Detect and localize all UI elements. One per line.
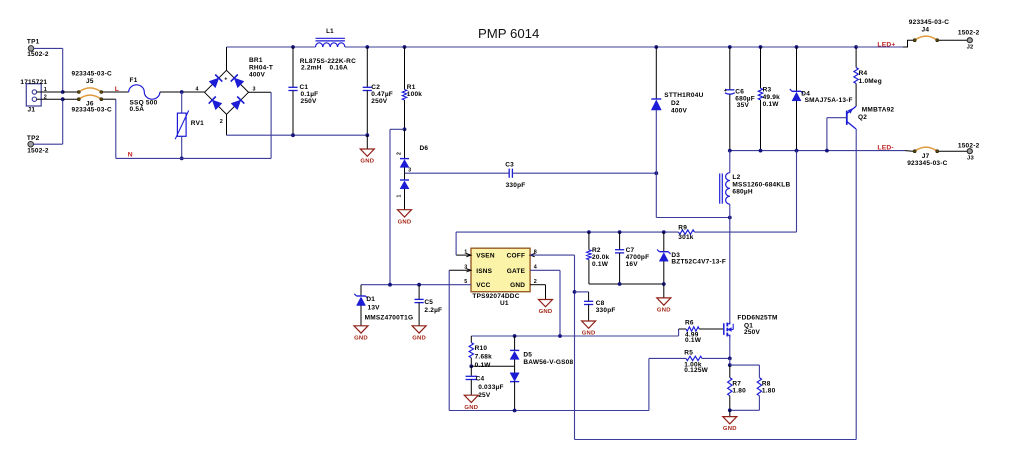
svg-text:GND: GND [412,335,426,341]
svg-text:1502-2: 1502-2 [27,147,49,154]
svg-text:C3: C3 [505,162,514,169]
svg-text:0.47µF: 0.47µF [371,91,393,98]
svg-text:MMSZ4700T1G: MMSZ4700T1G [365,315,414,322]
svg-text:L1: L1 [326,28,334,35]
svg-text:1502-2: 1502-2 [958,29,980,36]
svg-text:1502-2: 1502-2 [958,143,980,150]
svg-text:GND: GND [354,335,368,341]
svg-text:3: 3 [464,265,467,271]
svg-text:L: L [115,86,119,93]
svg-text:0.5A: 0.5A [130,106,145,113]
svg-text:400V: 400V [671,107,688,114]
svg-text:R3: R3 [763,87,772,94]
svg-text:301k: 301k [678,234,694,241]
svg-text:250V: 250V [744,329,761,336]
svg-text:RV1: RV1 [191,120,204,127]
svg-text:49.9k: 49.9k [763,94,781,101]
svg-text:100k: 100k [407,91,423,98]
svg-text:+: + [224,77,227,83]
svg-text:VCC: VCC [476,282,490,289]
svg-text:TPS92074DDC: TPS92074DDC [472,293,519,300]
svg-text:2.2mH: 2.2mH [301,65,322,72]
svg-text:ISNS: ISNS [476,268,492,275]
svg-text:GATE: GATE [507,268,526,275]
svg-text:923345-03-C: 923345-03-C [72,71,112,78]
svg-text:1.80: 1.80 [762,387,776,394]
svg-text:0.1W: 0.1W [475,362,492,369]
svg-text:BAW56-V-GS08: BAW56-V-GS08 [523,359,573,366]
svg-text:923345-03-C: 923345-03-C [907,160,947,167]
svg-text:GND: GND [539,309,553,315]
svg-text:LED-: LED- [877,145,893,152]
svg-text:923345-03-C: 923345-03-C [72,106,112,113]
svg-text:0.033µF: 0.033µF [478,384,504,391]
svg-text:2.2µF: 2.2µF [424,307,442,314]
svg-text:GND: GND [464,405,478,411]
svg-text:C1: C1 [300,84,309,91]
svg-text:330pF: 330pF [506,182,526,189]
svg-text:0.16A: 0.16A [330,65,349,72]
svg-text:400V: 400V [249,72,266,79]
svg-text:R1: R1 [407,84,416,91]
svg-text:VSEN: VSEN [476,253,495,260]
svg-text:0.125W: 0.125W [684,367,708,374]
svg-text:J5: J5 [86,78,94,85]
svg-text:C2: C2 [371,84,380,91]
svg-text:680µH: 680µH [732,189,752,196]
svg-text:3: 3 [408,167,411,173]
svg-text:0.1W: 0.1W [592,261,609,268]
svg-text:FDD6N25TM: FDD6N25TM [737,315,777,322]
svg-text:35V: 35V [737,102,750,109]
svg-text:1502-2: 1502-2 [27,51,49,58]
svg-text:3: 3 [253,87,256,93]
svg-text:J4: J4 [922,26,930,33]
svg-text:0.1W: 0.1W [763,101,780,108]
svg-text:BR1: BR1 [249,57,263,64]
svg-text:TP2: TP2 [27,135,40,142]
svg-text:D2: D2 [671,100,680,107]
svg-text:C4: C4 [476,375,485,382]
svg-text:STTH1R04U: STTH1R04U [664,92,703,99]
svg-text:16V: 16V [626,261,639,268]
svg-text:R6: R6 [685,319,694,326]
svg-text:TP1: TP1 [27,39,40,46]
svg-text:2: 2 [220,119,223,125]
svg-text:J2: J2 [967,45,974,51]
svg-text:13V: 13V [368,305,381,312]
svg-text:7.68k: 7.68k [475,354,493,361]
svg-text:D6: D6 [420,145,429,152]
svg-text:C5: C5 [424,299,433,306]
svg-text:GND: GND [398,219,412,225]
svg-text:PMP 6014: PMP 6014 [478,26,539,41]
svg-text:D5: D5 [523,352,532,359]
svg-text:R2: R2 [592,247,601,254]
svg-text:4700pF: 4700pF [626,254,650,261]
svg-text:0.1W: 0.1W [685,337,702,344]
svg-text:GND: GND [723,426,737,432]
svg-text:1.0Meg: 1.0Meg [859,78,882,85]
svg-text:1: 1 [397,195,403,198]
svg-text:R4: R4 [859,70,868,77]
svg-text:20.0k: 20.0k [592,254,610,261]
svg-text:0.1µF: 0.1µF [301,91,319,98]
svg-text:GND: GND [657,308,671,314]
svg-text:J1: J1 [28,107,36,114]
svg-text:MMBTA92: MMBTA92 [862,107,895,114]
svg-text:4: 4 [196,87,199,93]
svg-text:250V: 250V [301,98,318,105]
svg-text:250V: 250V [371,98,388,105]
svg-text:2: 2 [397,152,403,155]
svg-text:J3: J3 [967,156,974,162]
svg-text:R10: R10 [475,345,488,352]
svg-text:4: 4 [534,265,537,271]
svg-text:1715721: 1715721 [20,79,47,86]
svg-text:R9: R9 [678,225,687,232]
svg-text:Q2: Q2 [858,114,867,121]
svg-text:L2: L2 [732,174,740,181]
svg-text:R5: R5 [684,350,693,357]
svg-text:GND: GND [360,159,374,165]
svg-text:U1: U1 [500,300,509,307]
svg-text:25V: 25V [478,392,491,399]
svg-text:RH04-T: RH04-T [249,64,273,71]
svg-text:1.80: 1.80 [732,387,746,394]
svg-text:923345-03-C: 923345-03-C [909,19,949,26]
svg-text:SMAJ75A-13-F: SMAJ75A-13-F [805,97,853,104]
svg-text:F1: F1 [130,77,138,84]
svg-text:BZT52C4V7-13-F: BZT52C4V7-13-F [671,259,726,266]
svg-text:COFF: COFF [507,253,526,260]
svg-text:C7: C7 [626,247,635,254]
svg-text:GND: GND [510,282,525,289]
svg-text:N: N [128,152,133,159]
svg-text:MSS1260-684KLB: MSS1260-684KLB [732,181,790,188]
svg-text:330pF: 330pF [596,307,616,314]
svg-text:D1: D1 [366,296,375,303]
